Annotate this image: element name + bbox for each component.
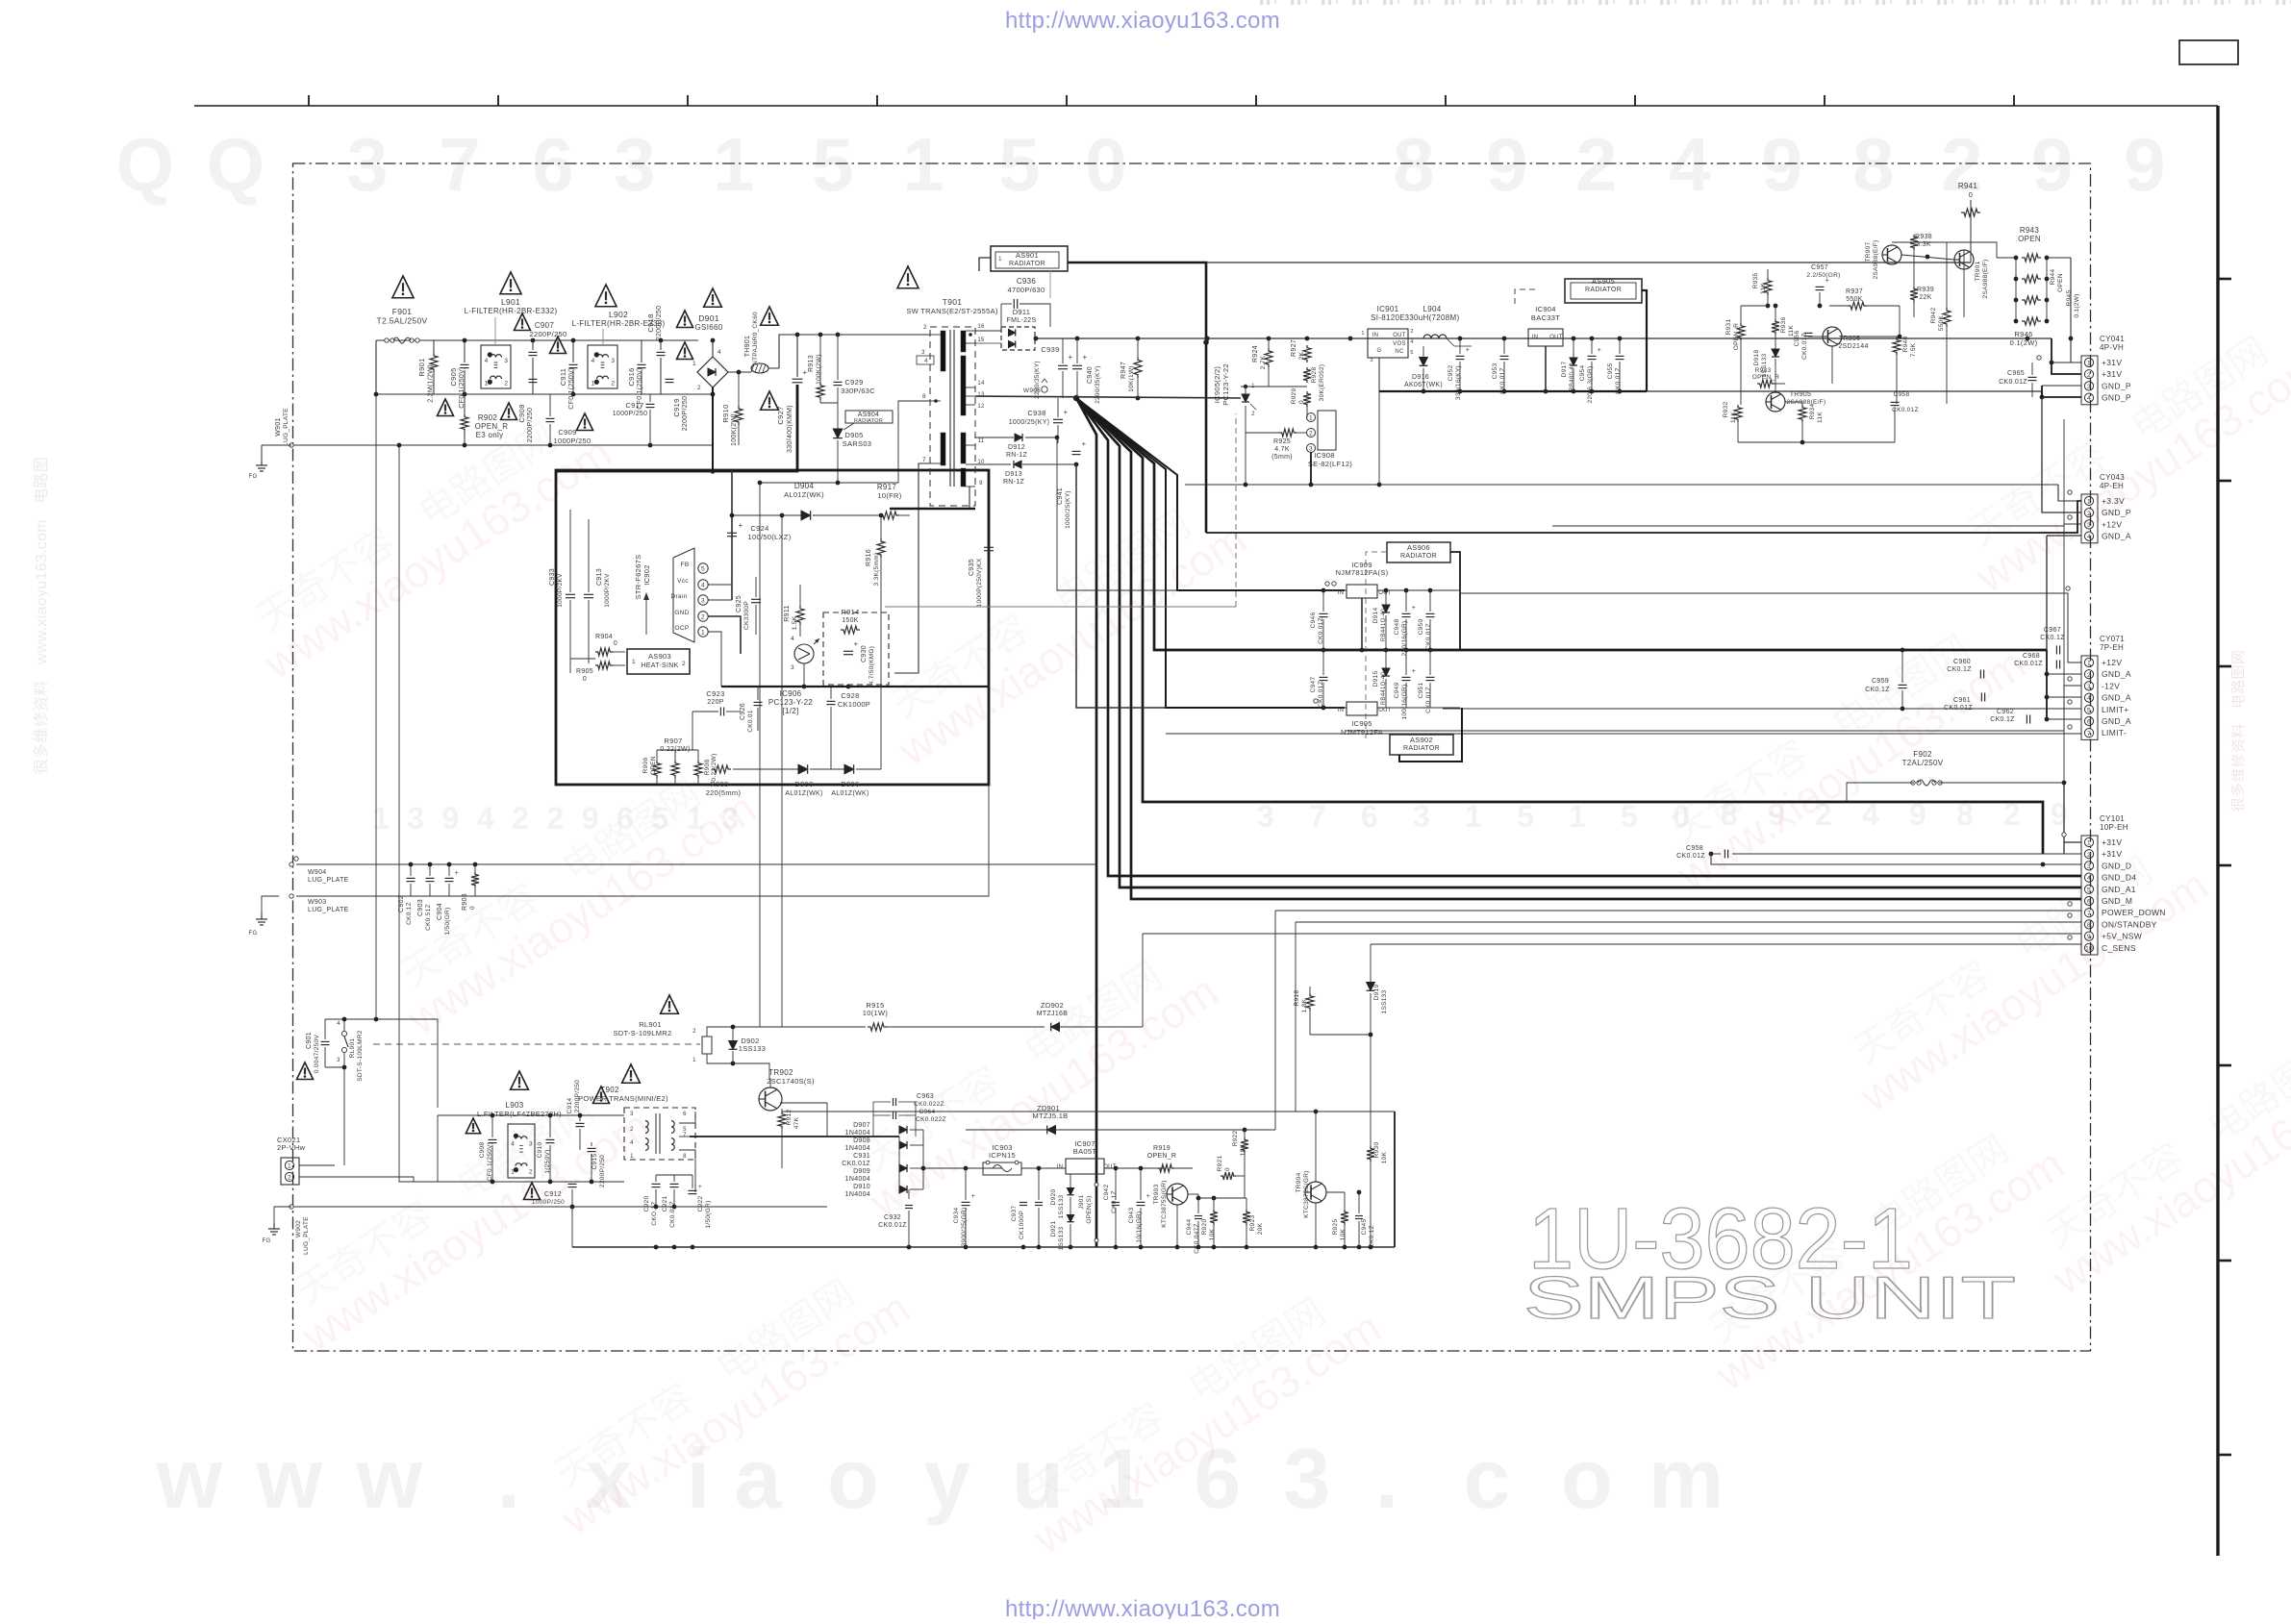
svg-text:R925: R925 <box>1332 1219 1339 1236</box>
svg-text:9: 9 <box>2031 122 2074 207</box>
svg-text:330/400(KMM): 330/400(KMM) <box>787 405 793 453</box>
capacitor C941 1000/25(KY) electrolytic <box>1072 450 1081 452</box>
svg-text:OPEN(S): OPEN(S) <box>1086 1195 1093 1223</box>
wire IC909 center down thick <box>1361 598 1363 650</box>
svg-text:+: + <box>1466 347 1470 354</box>
wire diode bank output <box>923 1167 1002 1169</box>
svg-text:C913: C913 <box>596 568 603 586</box>
connector CX021 2P-VHw <box>281 1158 299 1185</box>
capacitor C908 2200P/250 <box>529 378 538 380</box>
svg-text:2: 2 <box>611 380 615 387</box>
svg-text:2: 2 <box>2087 672 2091 679</box>
connector CY071 pin 4 GND_A <box>2084 693 2093 702</box>
svg-text:R936: R936 <box>1780 317 1787 334</box>
connector CY071 pin 2 GND_A <box>2084 670 2093 679</box>
wire R922 top to ZD901 line <box>966 1129 1245 1131</box>
warning triangle below C917 <box>677 342 693 360</box>
svg-text:VOS: VOS <box>1393 341 1406 347</box>
phototransistor IC906 <box>794 644 814 663</box>
svg-text:T902: T902 <box>600 1086 619 1094</box>
wire AC feed standby vertical A <box>375 394 377 1019</box>
svg-text:0: 0 <box>1224 1167 1231 1171</box>
capacitor C946 CK0.01Z <box>1320 612 1328 614</box>
svg-text:Q: Q <box>207 122 265 207</box>
connector CY071 pin 6 GND_A <box>2084 716 2093 725</box>
resistor R923 20K vertical <box>1243 1210 1250 1225</box>
svg-text:3: 3 <box>1283 1431 1330 1526</box>
svg-text:2SA988(E/F): 2SA988(E/F) <box>1787 399 1826 406</box>
svg-text:GND_M: GND_M <box>2102 896 2132 906</box>
svg-text:5: 5 <box>2087 707 2091 713</box>
svg-text:c: c <box>1463 1431 1510 1526</box>
capacitor C925 CK3300P <box>751 598 761 600</box>
svg-text:IN: IN <box>1057 1164 1064 1170</box>
inductor L904 330uH(7208M) <box>1423 335 1447 338</box>
diodes D920 D921 1SS133 <box>1067 1188 1073 1195</box>
connector CY041 pin 3 GND_P <box>2084 382 2093 390</box>
fan wire C GND_A1 <box>1076 398 2081 887</box>
svg-text:3: 3 <box>1257 799 1274 834</box>
svg-text:47K: 47K <box>793 1116 800 1129</box>
capacitor C962 CK0.1Z <box>2026 715 2027 724</box>
capacitor C933 1000P/2KV <box>566 593 575 595</box>
svg-text:y: y <box>923 1431 970 1526</box>
svg-text:STR-F6267S: STR-F6267S <box>634 555 642 600</box>
svg-text:LUG_PLATE: LUG_PLATE <box>303 1216 310 1255</box>
wire CX021 pin2 <box>299 1176 462 1178</box>
wire AS902 thick frame <box>1399 708 1462 762</box>
svg-text:CK0.1Z: CK0.1Z <box>406 902 413 925</box>
svg-text:R940: R940 <box>1902 337 1909 353</box>
svg-text:4: 4 <box>2087 395 2091 402</box>
svg-text:W903: W903 <box>308 899 327 906</box>
svg-text:R931: R931 <box>1725 319 1732 336</box>
svg-text:+: + <box>1598 347 1601 354</box>
wire GND pin thick <box>708 616 741 654</box>
wire T902 sec bottom <box>679 1150 695 1192</box>
resistor R907 0.22(2W) vertical <box>671 761 679 778</box>
resistor R924 2.7K vertical <box>1265 348 1272 367</box>
wire T902 secondary out <box>679 1112 695 1123</box>
wire relay to filter <box>335 1144 438 1165</box>
connector CY043 pin 4 GND_A <box>2084 532 2093 540</box>
svg-text:CK0.01Z: CK0.01Z <box>1999 379 2027 386</box>
wire GND_D to CY101 pin3 <box>1711 854 2081 864</box>
svg-text:0: 0 <box>1969 190 1973 199</box>
resistor R902 OPEN_R E3 only <box>461 414 468 432</box>
capacitor C901 0.0047/250V <box>321 1040 330 1042</box>
svg-text:+: + <box>1069 353 1073 362</box>
svg-text:+3.3V: +3.3V <box>2102 496 2125 506</box>
IC902 pin5 FB <box>698 563 708 573</box>
svg-text:2: 2 <box>546 801 564 836</box>
wire IC904 mid pin down thick <box>1545 346 1547 391</box>
IC902 pin4 Vcc <box>698 580 708 589</box>
wire fan E down join bottom bus <box>1096 1246 1395 1248</box>
svg-text:6: 6 <box>532 122 574 207</box>
resistor R942 550K vertical <box>1943 308 1951 327</box>
svg-text:C909: C909 <box>558 428 576 437</box>
svg-text:330/16(KY): 330/16(KY) <box>1455 365 1462 400</box>
svg-text:11K: 11K <box>1730 412 1737 423</box>
svg-text:Vcc: Vcc <box>677 578 689 585</box>
svg-text:AL01Z(WK): AL01Z(WK) <box>785 790 822 797</box>
svg-text:R907: R907 <box>664 737 682 745</box>
svg-text:L901: L901 <box>501 297 520 307</box>
svg-text:100K(2W): 100K(2W) <box>816 354 822 385</box>
svg-text:D910: D910 <box>853 1184 870 1190</box>
svg-text:C941: C941 <box>1057 487 1064 505</box>
wire D912 branch to IC909 row <box>1057 437 1177 590</box>
svg-text:4: 4 <box>592 358 595 364</box>
svg-text:1: 1 <box>692 361 696 367</box>
svg-text:C964: C964 <box>919 1109 936 1115</box>
svg-text:10K(1W): 10K(1W) <box>1128 365 1135 392</box>
svg-text:1000P/250: 1000P/250 <box>613 411 648 417</box>
wire standby AC bottom <box>438 1181 624 1183</box>
svg-text:2: 2 <box>630 1127 634 1133</box>
svg-text:C935: C935 <box>969 559 975 576</box>
svg-text:GND_P: GND_P <box>2102 381 2131 390</box>
svg-text:C951: C951 <box>1418 683 1424 699</box>
diode D919 1SS133 <box>1367 983 1375 991</box>
svg-text:R921: R921 <box>1217 1156 1223 1172</box>
svg-text:550K: 550K <box>1938 314 1945 331</box>
cluster wiring <box>1740 306 1742 323</box>
svg-text:TH901: TH901 <box>744 336 751 358</box>
svg-text:+: + <box>854 639 859 648</box>
thermistor TH901 NTPAJ6R0_CK60 <box>751 363 768 373</box>
diode D911b <box>1009 340 1016 347</box>
svg-text:TR904: TR904 <box>1296 1172 1302 1192</box>
svg-text:2.2/50(GR): 2.2/50(GR) <box>1806 272 1840 279</box>
svg-text:+: + <box>1083 353 1088 362</box>
IC908 SE-82 pins <box>1318 411 1336 450</box>
capacitor C958 CK0.01Z <box>1724 850 1725 859</box>
svg-text:10K: 10K <box>1209 1228 1216 1240</box>
svg-text:5: 5 <box>701 566 705 573</box>
transistor TR906 2SD2144 <box>1823 327 1842 346</box>
bottom ground bus y1297 <box>572 1246 1395 1248</box>
svg-text:R913: R913 <box>808 355 815 372</box>
svg-text:NJM7912FA: NJM7912FA <box>1341 728 1383 737</box>
svg-text:C934: C934 <box>953 1208 960 1224</box>
svg-text:3.3K: 3.3K <box>1916 241 1931 248</box>
svg-text:R911: R911 <box>784 605 791 621</box>
svg-text:C920: C920 <box>643 1196 650 1212</box>
capacitor C945 CK0.1Z <box>1355 1215 1363 1217</box>
resistor R922 10K vertical <box>1241 1137 1248 1153</box>
resistor R934 11K vertical <box>1799 405 1806 422</box>
svg-text:W901: W901 <box>275 417 282 437</box>
radiator AS902 box <box>1390 735 1453 755</box>
svg-text:ZD902: ZD902 <box>1041 1001 1064 1010</box>
wire W901 lug line <box>291 444 713 446</box>
svg-text:CK0.51Z: CK0.51Z <box>425 904 432 931</box>
IC902 pin2 GND <box>698 612 708 621</box>
wire AS901 to right thick <box>1068 262 1206 533</box>
L-filter L901 HR-2BR-E332 <box>481 345 511 388</box>
svg-text:+: + <box>1825 278 1829 285</box>
resistor R917 10(FR) <box>880 512 899 519</box>
svg-text:2SA988(E/F): 2SA988(E/F) <box>1873 240 1879 280</box>
svg-text:C946: C946 <box>1310 612 1317 629</box>
wire zd902 to +5V rail <box>1142 934 1144 1027</box>
wire AC neutral bottom rail <box>434 393 713 395</box>
svg-text:2: 2 <box>701 614 705 621</box>
svg-text:4: 4 <box>2087 875 2091 882</box>
svg-text:1: 1 <box>511 1169 515 1176</box>
capacitor C929 330P/63C <box>834 381 843 383</box>
svg-text:1: 1 <box>372 801 390 836</box>
svg-text:0: 0 <box>583 676 587 683</box>
diode D903 AL01Z(WK) <box>798 764 808 774</box>
wire TR902 emitter right thick <box>780 1103 1808 1112</box>
warning triangle above relay coil <box>661 995 679 1013</box>
svg-text:10K: 10K <box>1340 1228 1347 1240</box>
svg-text:TR907: TR907 <box>1865 241 1872 262</box>
svg-text:C933: C933 <box>549 568 556 586</box>
svg-text:10(1W): 10(1W) <box>863 1009 889 1017</box>
thick mid GND bus through IC909 block <box>1154 649 1460 651</box>
svg-text:D908: D908 <box>853 1137 870 1144</box>
warning triangle above T901 <box>897 266 919 288</box>
svg-text:GND_A: GND_A <box>2102 716 2131 726</box>
svg-text:LIMIT+: LIMIT+ <box>2102 705 2129 714</box>
capacitor C950 CK0.01Z <box>1426 612 1435 614</box>
capacitor C914 2200P/250 <box>576 1122 585 1124</box>
warning triangle above L902 <box>595 285 617 307</box>
svg-text:R908: R908 <box>704 760 711 776</box>
svg-text:0.0047/250V: 0.0047/250V <box>314 1035 320 1074</box>
svg-text:1: 1 <box>2087 840 2091 847</box>
svg-text:R941: R941 <box>1958 182 1978 190</box>
svg-text:POWER TRANS(MINI/E2): POWER TRANS(MINI/E2) <box>578 1094 668 1103</box>
svg-text:+: + <box>698 1184 702 1190</box>
capacitor C937 CK1000P <box>1020 1202 1027 1204</box>
diode D914 RB441Q-40 <box>1382 605 1390 612</box>
svg-text:R923: R923 <box>1249 1215 1256 1232</box>
svg-text:R910: R910 <box>721 404 730 422</box>
svg-text:R943: R943 <box>2020 226 2040 235</box>
dashed link AS905 <box>1515 289 1535 306</box>
svg-text:9: 9 <box>979 481 983 487</box>
svg-text:0: 0 <box>1298 400 1305 404</box>
svg-text:C965: C965 <box>2007 370 2025 377</box>
wire opto cathode down <box>1245 406 1246 485</box>
wire AC live top rail <box>376 339 698 341</box>
svg-text:OPEN_R: OPEN_R <box>475 422 509 431</box>
resistor R925 4.7K(5mm) <box>1279 429 1297 437</box>
svg-text:C962: C962 <box>1997 709 2014 715</box>
svg-text:IC901: IC901 <box>1377 305 1399 313</box>
svg-text:FG: FG <box>263 1238 271 1244</box>
svg-text:C916: C916 <box>627 367 636 386</box>
svg-text:R902: R902 <box>478 413 498 422</box>
svg-text:+: + <box>1412 605 1416 612</box>
svg-text:4: 4 <box>630 1140 634 1146</box>
svg-text:C943: C943 <box>1128 1208 1135 1224</box>
diode D913 RN-1Z <box>1014 461 1021 468</box>
svg-text:D907: D907 <box>853 1122 870 1129</box>
connector CY071 pin 7 LIMIT- <box>2084 729 2093 737</box>
svg-text:2: 2 <box>512 801 529 836</box>
L-filter L903 LF4ZBE273H <box>508 1124 535 1178</box>
svg-text:+31V: +31V <box>2102 358 2122 367</box>
svg-text:15: 15 <box>977 337 985 343</box>
svg-text:4: 4 <box>924 359 928 364</box>
IC901 SI-8120E regulator <box>1368 329 1408 358</box>
svg-text:.: . <box>1375 1431 1399 1526</box>
wire GND_A to CY043 pin4 <box>2047 535 2081 537</box>
svg-text:IC905: IC905 <box>1351 719 1372 728</box>
svg-text:FB: FB <box>681 562 690 568</box>
svg-text:2200P/250: 2200P/250 <box>530 330 567 338</box>
svg-text:1/50(GR): 1/50(GR) <box>705 1200 712 1228</box>
capacitor C940 2200/35(KY) electrolytic <box>1072 364 1082 366</box>
svg-text:4: 4 <box>701 583 705 589</box>
svg-text:100K(2W): 100K(2W) <box>731 413 738 446</box>
svg-text:L904: L904 <box>1423 305 1442 313</box>
wire relay coil top <box>707 1027 733 1041</box>
svg-text:2: 2 <box>1575 122 1618 207</box>
capacitor C948 220/16(GR) electrolytic <box>1402 612 1411 614</box>
resistor R933 OPEN_R <box>1757 380 1775 387</box>
capacitor C942 CK0.1Z <box>1112 1202 1120 1204</box>
svg-text:IN: IN <box>1338 590 1345 596</box>
svg-text:RADIATOR: RADIATOR <box>1009 261 1045 267</box>
svg-text:1: 1 <box>630 1154 634 1160</box>
resistor R908 0.22(2W) vertical <box>694 761 702 778</box>
resistor R938 3.3K <box>1910 235 1918 250</box>
svg-text:BA05T: BA05T <box>1073 1147 1097 1156</box>
svg-text:C932: C932 <box>884 1214 901 1221</box>
svg-text:7: 7 <box>922 457 926 463</box>
svg-text:1N4004: 1N4004 <box>845 1145 870 1152</box>
svg-text:1SS133: 1SS133 <box>1381 989 1388 1013</box>
warning triangle near F901 <box>392 276 414 298</box>
svg-text:C914: C914 <box>566 1098 573 1114</box>
IC902 block outline thick <box>556 470 989 785</box>
wire R916 bottom to D906 <box>880 596 882 769</box>
svg-text:D901: D901 <box>698 313 719 323</box>
svg-text:IN: IN <box>1338 708 1345 713</box>
svg-text:3: 3 <box>529 1140 533 1147</box>
svg-text:R946: R946 <box>2014 330 2032 338</box>
connector CY101 pin 3 GND_D <box>2084 862 2093 870</box>
star node main secondary ground <box>1073 395 1079 401</box>
resistor R909 220(5mm) <box>712 765 731 773</box>
capacitor C963 CK0.022Z <box>893 1098 894 1106</box>
svg-text:1: 1 <box>1569 799 1586 834</box>
wire AC feed standby vertical B <box>399 445 438 1182</box>
resistor R910 100K(2W) <box>735 406 743 425</box>
warning triangle near C901 <box>297 1062 314 1080</box>
arrow AS903 heat-sink pointer <box>645 596 647 635</box>
svg-text:+31V: +31V <box>2102 849 2122 859</box>
svg-text:SW TRANS(E2/ST-2555A): SW TRANS(E2/ST-2555A) <box>906 307 998 315</box>
dashed box IC906 PC123 photo side <box>823 612 889 685</box>
svg-text:3: 3 <box>791 664 794 671</box>
svg-text:IC906: IC906 <box>780 689 802 698</box>
svg-text:3: 3 <box>2087 522 2091 529</box>
wire bus down from W902 region <box>571 1207 573 1247</box>
capacitor C916 CF0.1(250V) <box>638 363 646 365</box>
IC907 BA05T <box>1066 1159 1104 1174</box>
svg-text:C907: C907 <box>535 321 555 330</box>
svg-text:C908: C908 <box>517 404 526 422</box>
wire F902 feed <box>1939 419 2064 783</box>
capacitor C913 1000P/2KV <box>584 593 593 595</box>
svg-text:C922: C922 <box>697 1196 704 1212</box>
svg-text:4: 4 <box>718 349 721 356</box>
capacitor C903 CK0.51Z <box>426 877 435 879</box>
capacitor C905 CF0.1(250V) <box>461 363 469 365</box>
svg-text:3: 3 <box>1370 358 1372 363</box>
svg-text:R903: R903 <box>462 893 468 911</box>
svg-text:OUT: OUT <box>1549 335 1563 340</box>
resistor R940 7.5K vertical <box>1893 337 1901 355</box>
resistor R936 11K vertical <box>1772 319 1779 335</box>
zener ZD901 MTZJ5.1B <box>1047 1126 1056 1135</box>
wire left bus W904 <box>296 863 1096 865</box>
ground W902 LUG_PLATE <box>274 1207 291 1223</box>
svg-text:2: 2 <box>504 380 508 387</box>
svg-text:C940: C940 <box>1087 366 1094 384</box>
svg-text:3: 3 <box>614 122 656 207</box>
svg-text:SDT-S-109LMR2: SDT-S-109LMR2 <box>613 1029 671 1037</box>
svg-text:C924: C924 <box>750 524 768 533</box>
svg-text:Q: Q <box>116 122 175 207</box>
svg-text:(5mm): (5mm) <box>1271 454 1293 461</box>
svg-text:7: 7 <box>683 1133 687 1138</box>
capacitor C939 2200/35(KY) electrolytic <box>1058 364 1068 366</box>
svg-text:OUT: OUT <box>1393 333 1406 338</box>
warning triangle above T902 <box>622 1064 641 1083</box>
svg-text:HEAT-SINK: HEAT-SINK <box>641 662 678 669</box>
wire C927 negative thick bus <box>556 385 797 471</box>
wire standby AC top <box>438 1114 624 1116</box>
TR903 wiring <box>1188 1193 1198 1195</box>
svg-text:L-FILTER(HR-2BR-E332): L-FILTER(HR-2BR-E332) <box>465 307 558 315</box>
svg-text:D918: D918 <box>1753 350 1760 366</box>
dashed relay link <box>373 1043 700 1045</box>
svg-text:CK0.01: CK0.01 <box>747 710 754 733</box>
svg-text:220(5mm): 220(5mm) <box>706 788 742 797</box>
svg-text:9: 9 <box>1761 122 1803 207</box>
resistor R905 0 <box>595 662 613 669</box>
svg-text:很多维修资料 www.xiaoyu163.com 电路图: 很多维修资料 www.xiaoyu163.com 电路图 <box>33 457 50 774</box>
svg-text:OPEN_R: OPEN_R <box>1733 323 1740 351</box>
connector CY101 pin 1 +31V <box>2084 837 2093 846</box>
svg-text:C936: C936 <box>1017 277 1037 286</box>
svg-text:C929: C929 <box>844 378 863 387</box>
capacitor C958cluster CK0.01Z <box>1891 401 1900 403</box>
capacitor C947 CK0.01Z <box>1320 676 1328 678</box>
diode D907 1N4004 <box>899 1126 907 1134</box>
capacitor C952 330/16(KY) electrolytic <box>1456 355 1465 357</box>
capacitor C953 CK0.01Z <box>1500 355 1509 357</box>
svg-text:3: 3 <box>611 358 615 364</box>
ground W901 LUG_PLATE <box>262 444 291 446</box>
resistor R939 22K <box>1910 287 1918 302</box>
svg-text:FML-22S: FML-22S <box>1007 317 1037 324</box>
svg-text:FG: FG <box>249 931 258 937</box>
wire IC901 G down <box>1378 358 1380 391</box>
svg-text:1000P/250: 1000P/250 <box>554 437 592 445</box>
resistor R915 10(1W) <box>868 1023 887 1031</box>
svg-text:C903: C903 <box>417 899 424 916</box>
